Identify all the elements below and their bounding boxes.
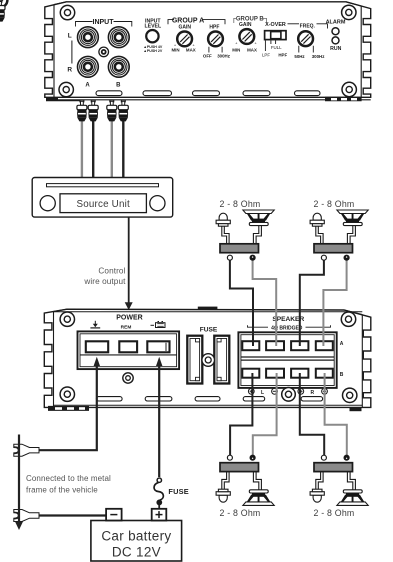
wire speaker B+ right (black) [300, 373, 324, 455]
RCA signal cable 3 (gray) [111, 120, 113, 178]
svg-text:2 - 8 Ohm: 2 - 8 Ohm [220, 508, 261, 518]
GROUP B GAIN knob [239, 29, 254, 44]
amplifier 2 corner screw top-right [341, 312, 355, 326]
svg-text:LEVEL: LEVEL [144, 23, 162, 29]
fuse holder left [187, 336, 202, 384]
RUN LED [332, 37, 339, 44]
amplifier 1 bottom-right foot bracket [325, 97, 362, 102]
svg-text:MIN: MIN [232, 47, 240, 52]
speaker assembly top-left [216, 210, 274, 260]
svg-text:2 - 8 Ohm: 2 - 8 Ohm [314, 199, 355, 209]
amplifier 2 corner screw top-left [60, 312, 357, 402]
svg-text:GAIN: GAIN [239, 22, 252, 28]
svg-text:50Hz: 50Hz [294, 54, 305, 59]
amplifier 2 bottom-right foot bracket [350, 408, 362, 412]
amplifier 1 corner screw top-right [342, 5, 356, 19]
RCA signal cable 2 (black) [92, 120, 94, 178]
svg-text:MIN: MIN [171, 47, 179, 52]
svg-text:R: R [310, 390, 314, 396]
svg-text:L: L [68, 33, 72, 40]
FREQ knob [298, 31, 313, 46]
svg-text:Control: Control [98, 267, 125, 276]
svg-text:X-OVER: X-OVER [265, 22, 286, 28]
HPF range ticks [209, 47, 222, 53]
+12V wire arrow into terminal [156, 357, 162, 366]
amplifier 1 corner screw top-left [59, 5, 356, 97]
svg-text:FULL: FULL [271, 45, 282, 50]
svg-text:HPF: HPF [278, 53, 287, 58]
svg-text:FUSE: FUSE [168, 487, 189, 496]
svg-text:REM: REM [121, 324, 132, 330]
svg-text:A: A [85, 83, 90, 89]
POWER terminal +12V [147, 341, 169, 352]
SPEAKER terminal block [238, 332, 336, 388]
svg-text:DC 12V: DC 12V [112, 545, 161, 560]
amplifier 2 inner bottom edge [54, 404, 363, 406]
source unit display [60, 194, 146, 213]
amplifier 2 face edges [53, 312, 55, 408]
FREQ range ticks [299, 46, 314, 53]
amplifier 1 corner screw bottom-left [59, 82, 73, 96]
ALARM LED [332, 28, 339, 35]
POWER terminal REM [119, 341, 137, 352]
screw under POWER block [123, 373, 133, 383]
RCA plug 2 [88, 100, 98, 121]
svg-text:▲PUSH 2V: ▲PUSH 2V [143, 49, 163, 53]
RCA plug 4 [118, 100, 128, 121]
svg-text:Car battery: Car battery [101, 529, 171, 544]
battery box [91, 521, 182, 562]
amplifier 2 inner top edge [54, 311, 363, 313]
X-OVER position ticks [265, 41, 275, 52]
screw between fuse holders [202, 354, 215, 367]
speaker terminal A1 [242, 341, 259, 350]
svg-text:2 - 8 Ohm: 2 - 8 Ohm [220, 199, 261, 209]
speaker terminal B2 [266, 369, 284, 378]
source unit right knob [150, 196, 165, 211]
svg-text:GAIN: GAIN [179, 24, 192, 30]
+12V wire [158, 364, 160, 477]
svg-text:300Hz: 300Hz [217, 54, 230, 59]
svg-text:frame of the vehicle: frame of the vehicle [26, 486, 98, 495]
svg-text:2 - 8 Ohm: 2 - 8 Ohm [314, 508, 355, 518]
polarity marks + L - [248, 388, 254, 394]
amplifier 1 bottom-left foot bracket [46, 98, 82, 102]
svg-text:POWER: POWER [116, 315, 142, 322]
ring terminal lower [14, 510, 39, 522]
svg-text:+: + [235, 40, 238, 45]
RCA jack R-B [108, 56, 129, 77]
svg-text:Source Unit: Source Unit [77, 199, 130, 210]
wire speaker B+ left (black) [230, 373, 252, 455]
svg-text:MAX: MAX [247, 47, 257, 52]
svg-text:INPUT: INPUT [93, 19, 115, 26]
svg-text:R: R [67, 66, 72, 73]
ring terminal upper [14, 444, 39, 456]
RCA plug 1 [0, 0, 5, 21]
chassis arrow [15, 521, 24, 531]
RCA signal cable 1 (gray) [81, 120, 83, 178]
speaker terminal B4 [316, 369, 333, 378]
speaker assembly bottom-right [310, 455, 368, 505]
chassis stud line [18, 435, 20, 522]
svg-text:RUN: RUN [330, 46, 341, 52]
svg-text:300Hz: 300Hz [312, 54, 325, 59]
INPUT LEVEL knob [146, 30, 158, 42]
speaker terminal A3 [291, 341, 308, 350]
fuse squiggle [154, 478, 163, 505]
svg-text:FUSE: FUSE [200, 327, 218, 334]
amplifier 1 bottom plate [46, 99, 371, 101]
svg-text:L: L [261, 390, 264, 396]
svg-text:B: B [340, 372, 344, 378]
wire speaker B- left (gray) [253, 373, 277, 455]
battery plus terminal [152, 509, 167, 521]
amplifier 1 corner screw bottom-right [342, 82, 356, 96]
svg-text:MAX: MAX [186, 47, 196, 52]
ground wire [39, 364, 97, 450]
speaker assembly bottom-left [216, 455, 274, 505]
amplifier 2 bottom vent slots [96, 397, 322, 401]
speaker assembly top-right [310, 210, 368, 260]
INPUT group label and bracket [76, 19, 132, 27]
X-OVER slide switch [265, 31, 286, 40]
center screw under speaker block [282, 388, 296, 402]
svg-text:wire output: wire output [83, 277, 126, 286]
ground wire arrow into terminal [94, 357, 100, 366]
speaker terminal A4 [316, 341, 333, 350]
wire speaker A+ left (black) [230, 260, 253, 346]
wire speaker A- left (gray) [253, 260, 277, 346]
svg-text:Connected to the metal: Connected to the metal [26, 474, 111, 483]
ground symbol [90, 321, 100, 328]
battery plus symbol [151, 322, 166, 328]
GROUP A GAIN knob [0, 0, 7, 7]
battery negative wire [39, 514, 106, 516]
control wire from source unit [128, 217, 130, 303]
battery minus terminal [106, 509, 122, 521]
RCA plug 3 [107, 100, 117, 121]
RCA jack L-A [78, 27, 99, 48]
speaker terminal B3 [291, 369, 308, 378]
wire speaker A- right (gray) [323, 260, 346, 346]
amplifier 2 corner screw bottom-left [60, 387, 74, 401]
RCA jack R-A [78, 56, 99, 77]
panel screw between jacks [99, 47, 109, 57]
amplifier 2 chassis outline [44, 309, 371, 407]
RCA jack L-B [108, 27, 129, 48]
RCA signal cable 4 (black) [122, 120, 124, 178]
fuse holder right [214, 336, 229, 384]
POWER terminal block [78, 331, 180, 369]
amplifier 1 chassis outline [45, 2, 371, 98]
svg-text:FREQ.: FREQ. [300, 23, 316, 29]
amplifier 2 corner screw bottom-right [343, 388, 357, 402]
svg-text:B: B [116, 83, 121, 89]
svg-text:LPF: LPF [262, 53, 270, 58]
speaker terminal A2 [266, 341, 284, 350]
amplifier 1 bottom vent slots [96, 91, 320, 96]
wire speaker A+ right (black) [300, 260, 324, 346]
svg-text:+: + [254, 40, 257, 45]
amplifier 1 face edges [53, 5, 55, 98]
L / R channel labels and line [67, 33, 72, 74]
svg-text:OFF: OFF [203, 54, 212, 59]
source unit top slot bar [47, 184, 159, 187]
speaker terminal B1 [242, 369, 259, 378]
POWER terminal GND [86, 341, 108, 352]
HPF knob [208, 32, 223, 47]
svg-text:ALARM: ALARM [326, 19, 346, 25]
svg-text:A: A [340, 341, 344, 347]
source unit left knob [40, 196, 55, 211]
amplifier 2 bottom-left foot bracket [48, 406, 89, 411]
svg-text:HPF: HPF [209, 24, 219, 30]
wire speaker B- right (gray) [325, 373, 347, 455]
amplifier 2 top tab [198, 307, 218, 310]
polarity marks + R - [298, 388, 304, 394]
source unit box [32, 178, 173, 218]
